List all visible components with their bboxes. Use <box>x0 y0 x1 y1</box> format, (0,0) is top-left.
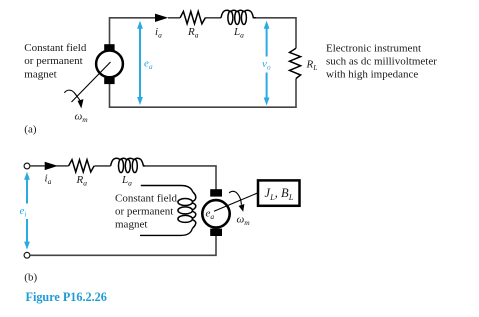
svg-text:with high impedance: with high impedance <box>326 69 418 81</box>
svg-text:magnet: magnet <box>24 68 56 80</box>
rotation arrow omega_m (b) <box>229 191 241 204</box>
svg-text:magnet: magnet <box>115 219 147 231</box>
brush top (b) <box>210 189 222 196</box>
current arrow i_a (b) <box>45 162 58 170</box>
e_i measurement arrow (cyan, b) <box>24 172 30 250</box>
svg-text:Constant field: Constant field <box>115 192 178 204</box>
svg-text:or permanent: or permanent <box>24 55 82 67</box>
wire: inductor L_a to machine top brush (b) <box>145 166 216 190</box>
shaft line (a) <box>72 62 111 102</box>
svg-text:(b): (b) <box>24 272 37 284</box>
e_a measurement arrow (cyan, a) <box>137 21 143 105</box>
rotation arrow omega_m (a) <box>64 90 79 100</box>
wire: inductor L_a to top-right corner down to R_L (a) <box>256 18 296 49</box>
wire: resistor R_a to inductor L_a (b) <box>94 165 110 167</box>
wire: field winding top lead (b) <box>141 186 193 193</box>
svg-text:such as dc millivoltmeter: such as dc millivoltmeter <box>326 56 437 68</box>
wire: resistor R_a to inductor L_a (a) <box>206 17 221 19</box>
load box J_L, B_L <box>258 180 300 205</box>
inductor L_a (b) <box>111 158 145 172</box>
terminal top (b) <box>24 163 30 169</box>
machine (tachometer) circle, circuit (a) <box>96 51 123 78</box>
terminal bottom (b) <box>24 252 30 258</box>
machine (motor) circle, circuit (b) <box>202 200 229 227</box>
brush bottom (b) <box>210 229 222 236</box>
svg-text:Figure P16.2.26: Figure P16.2.26 <box>26 290 107 304</box>
wire: field winding bottom lead (b) <box>140 229 192 236</box>
wire: R_L down, bottom return to machine bottom (a) <box>110 79 297 108</box>
svg-text:or permanent: or permanent <box>115 206 173 218</box>
brush bottom (a) <box>104 78 114 85</box>
resistor R_a (b) <box>69 160 95 172</box>
field coil (b): 3 horizontal loops + right humps <box>178 192 196 229</box>
svg-text:(a): (a) <box>24 124 37 136</box>
wire: arrow to resistor R_a (b) <box>57 165 69 167</box>
wire: machine bottom brush to bottom terminal (b) <box>30 235 216 255</box>
inductor L_a (a) : 3 hanging loops + humped top <box>221 10 256 24</box>
wire: top terminal to arrow (b) <box>30 165 45 167</box>
wire: machine top to top-left corner and across to arrow (a) <box>110 18 156 45</box>
shaft line to load box (b) <box>214 193 258 211</box>
resistor R_L (a, vertical) <box>290 48 301 78</box>
resistor R_a (a) <box>180 11 205 23</box>
current arrow i_a (a) <box>155 14 168 22</box>
svg-text:Constant field: Constant field <box>24 42 87 54</box>
brush top (a) <box>104 44 114 51</box>
svg-text:Electronic instrument: Electronic instrument <box>326 42 421 54</box>
wire: arrow to resistor R_a (a) <box>168 17 180 19</box>
v_o measurement arrow (cyan, a) <box>264 21 270 106</box>
